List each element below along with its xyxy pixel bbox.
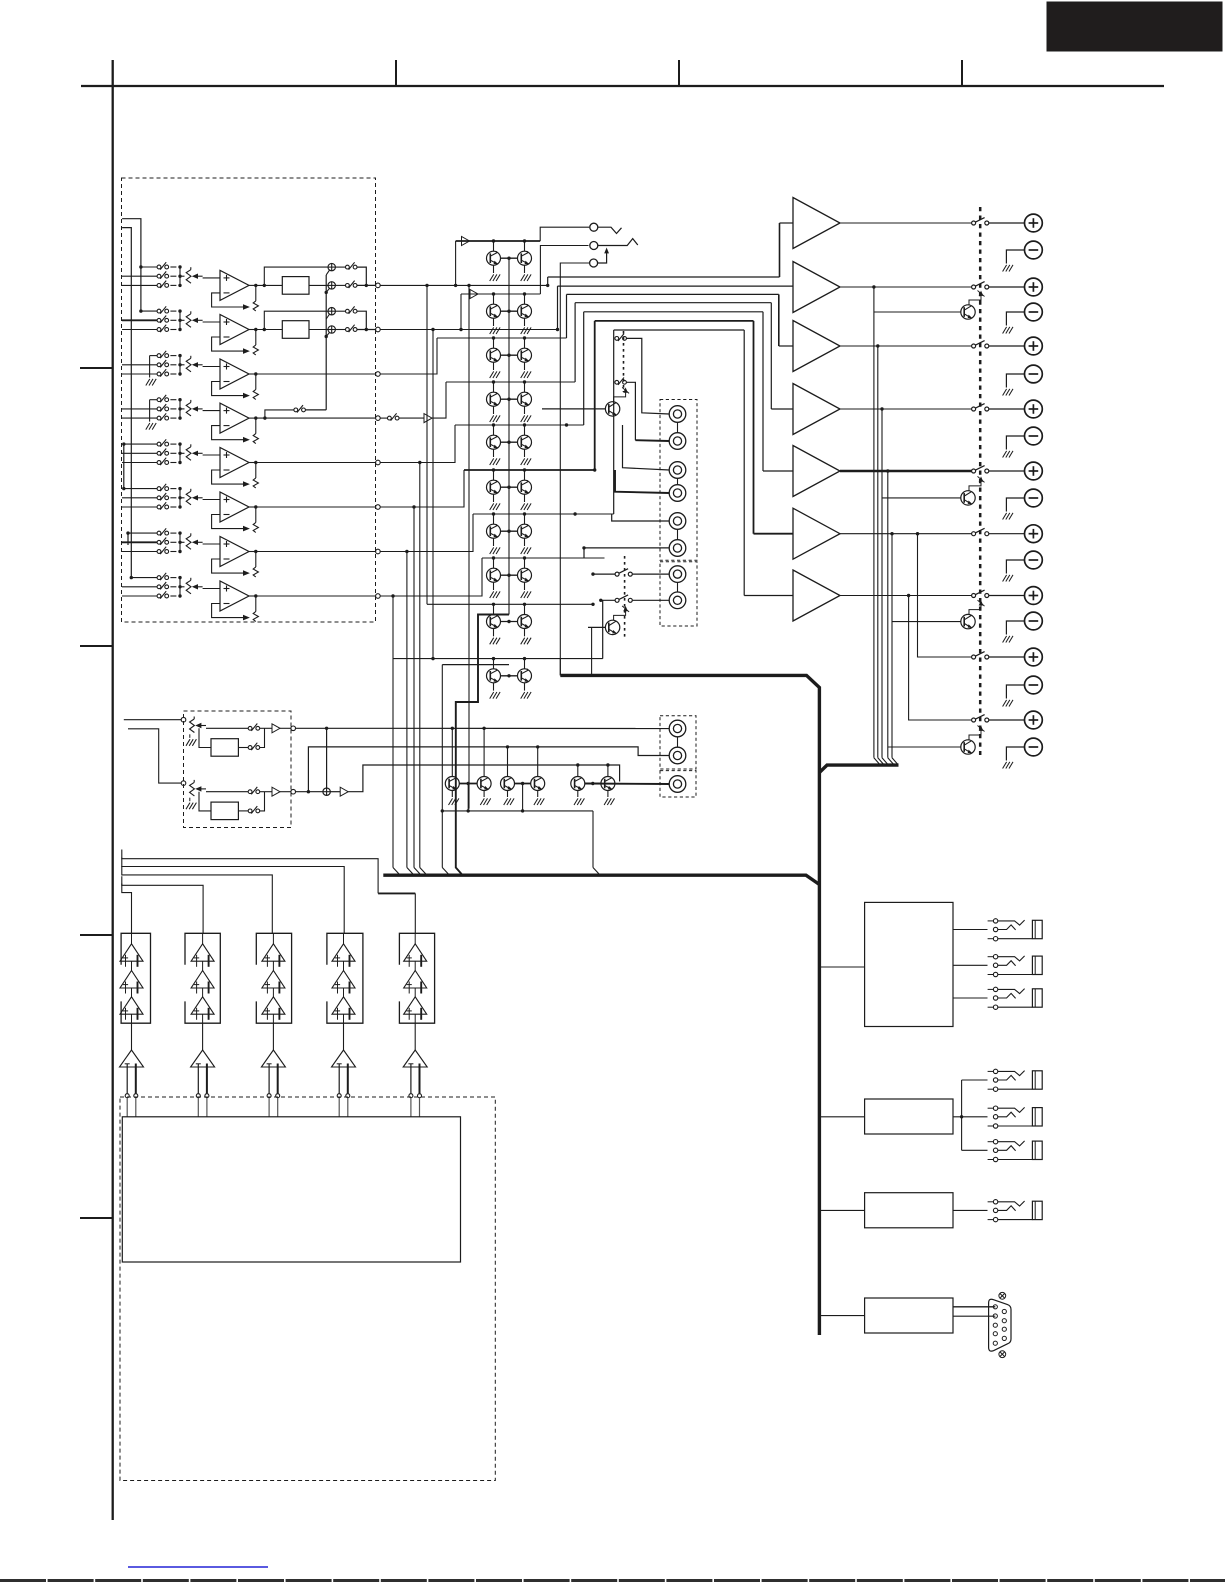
array amp col5 2 <box>404 971 427 989</box>
bundle drop 5 <box>762 312 764 471</box>
border frame top horizontal <box>81 85 1164 87</box>
record buffer ch1 <box>272 724 280 733</box>
zone driver emitter return <box>591 627 593 675</box>
speaker - terminal 3 <box>1025 365 1043 383</box>
box2 output junction <box>953 1116 988 1118</box>
power amp A1 <box>793 198 840 249</box>
record tape line 3 <box>348 765 619 792</box>
sum node lower row 2 <box>328 326 335 333</box>
output node circle row 4 <box>376 416 381 421</box>
speaker switch row 7 <box>972 594 976 598</box>
jack 2 feed <box>626 382 635 440</box>
record ch2 junction <box>307 790 310 793</box>
box4 feed stub <box>819 1315 864 1317</box>
array amp col2 3 <box>191 997 214 1014</box>
zone switch 1 <box>615 572 619 576</box>
speaker - terminal 9 <box>1025 738 1043 756</box>
mute transistor Q8 <box>518 392 532 406</box>
mute transistor pair 6 taps <box>492 468 495 471</box>
terminal ground 2 <box>1003 327 1007 334</box>
box digital 2 <box>865 1099 953 1134</box>
tap amp6 dot <box>890 532 893 535</box>
sum node upper row 1 <box>328 263 335 270</box>
record mute tap 5 <box>576 763 579 766</box>
record mute ground 3 <box>507 791 509 798</box>
amp output wire A3 <box>840 345 972 347</box>
op-amp U8 <box>220 581 249 611</box>
terminal ground wire 1 <box>1006 250 1024 264</box>
wire op-amp out row 1 <box>256 284 282 286</box>
record entry wire ch2 <box>128 729 181 783</box>
rail tap dot row 5 <box>122 442 125 445</box>
headphone ring contact <box>590 242 598 250</box>
array amp col3 3 <box>262 997 285 1014</box>
bundle east run 1 <box>548 276 780 278</box>
record pair link <box>515 783 531 785</box>
RCA jack J8 <box>669 592 686 609</box>
tap vertical x882 <box>881 409 883 758</box>
tap amp3 dot <box>876 344 879 347</box>
wire op-amp out row 5 <box>256 462 376 464</box>
mute transistor Q1 <box>487 251 501 265</box>
mute gnd right 2 <box>524 318 526 326</box>
post-sum switch upper row 2 <box>335 310 345 312</box>
box rs232 4 <box>865 1298 953 1333</box>
mute gnd left 6 <box>493 494 495 502</box>
zone row10 step <box>603 600 615 658</box>
box1 output wire 2 <box>953 964 988 966</box>
tap merge bevel <box>892 758 898 765</box>
op-amp output junction row 6 <box>249 506 256 508</box>
array out pair col 1 <box>126 1064 128 1094</box>
main dsp box <box>122 1117 460 1262</box>
speaker - terminal 4 <box>1025 427 1043 445</box>
row2 ext wire <box>380 329 557 331</box>
wire switch to terminal 9 <box>989 719 1025 721</box>
bus2 drop aux <box>441 665 443 868</box>
zone R vertical <box>432 330 434 659</box>
input select switches row 3 <box>157 354 161 358</box>
bundle junction dots <box>546 284 549 287</box>
output node circle row 2 <box>376 327 381 332</box>
RCA jack JR1 <box>669 720 686 737</box>
wire pot to op-amp row 7 <box>203 543 220 545</box>
record collector ch2 <box>260 792 265 811</box>
sum node diagonal taps row 2 <box>326 314 329 319</box>
input rail B wire <box>127 533 129 545</box>
record mute ground 5 <box>577 791 579 798</box>
RCA jack JR2 <box>669 747 686 764</box>
array column feed col 3 <box>272 933 274 944</box>
rail tap dot row 2 <box>139 309 142 312</box>
bundle vertical 6 <box>594 321 596 470</box>
amp input stub 1 <box>780 222 794 224</box>
wire pot to op-amp row 6 <box>203 499 220 501</box>
wire pot to op-amp row 5 <box>203 454 220 456</box>
amp output wire A7 <box>840 595 972 597</box>
array out wire col 4 <box>343 1023 345 1050</box>
speaker switch row 6 <box>972 532 976 536</box>
record collector ch1 <box>260 728 265 747</box>
terminal ground 8 <box>1003 700 1007 707</box>
mute row wire 4 <box>446 381 575 383</box>
tap merge bevel <box>878 758 884 765</box>
record out thick wire <box>585 783 669 786</box>
row5 out wire <box>380 425 455 463</box>
mute transistor Q6 <box>518 348 532 362</box>
record filter box ch2 <box>211 802 238 820</box>
mute gnd left 10 <box>493 683 495 691</box>
terminal ground wire 7 <box>1006 621 1024 635</box>
mute gnd left 7 <box>493 538 495 546</box>
row3 to mute wire <box>380 338 437 374</box>
feedback loop row 2 <box>212 337 244 351</box>
terminal ground 6 <box>1003 575 1007 582</box>
pre-out jacks dashed box B <box>660 562 697 626</box>
tap merge bevel <box>874 758 880 765</box>
DB9 screw top <box>999 1292 1006 1299</box>
mute pair link 10 <box>501 675 518 677</box>
terminal ground wire 9 <box>1006 747 1024 761</box>
record switch filtered ch2 <box>238 810 248 812</box>
terminal ground wire 5 <box>1006 498 1024 512</box>
speaker + terminal 5 <box>1025 462 1043 480</box>
array amp col2 1 <box>191 944 214 961</box>
box digital 1 <box>865 902 953 1026</box>
box3 output wire <box>953 1209 988 1211</box>
speaker - terminal 7 <box>1025 612 1043 630</box>
DB9 connector body <box>989 1299 1011 1351</box>
amp output wire A5 <box>840 470 972 473</box>
headphone buffer 1 <box>462 237 470 246</box>
power amp A3 <box>793 321 840 372</box>
zone driver transistor Q0 base wire <box>542 408 605 410</box>
speaker switch row 3 <box>972 344 976 348</box>
op-amp U4 <box>220 403 249 433</box>
array box col 5 <box>399 933 434 1023</box>
record filter tap ch2 <box>199 792 211 811</box>
terminal ground wire 3 <box>1006 374 1024 388</box>
record out circle ch2 <box>291 789 296 794</box>
record under right drop <box>592 811 594 868</box>
array amp col3 2 <box>262 971 285 989</box>
speaker switch row 9 <box>972 718 976 722</box>
switch collector bus row 6 <box>179 489 181 507</box>
switch collector bus row 2 <box>179 311 181 329</box>
speaker switch row 5 <box>972 469 976 473</box>
mute transistor pair 10 taps <box>492 657 495 660</box>
wire switch to terminal 5 <box>989 470 1025 472</box>
mute gnd right 10 <box>524 683 526 691</box>
array feed line 5 <box>122 884 132 934</box>
record wire ch2 <box>206 791 248 793</box>
tap amp2 dot <box>872 285 875 288</box>
bundle drop 3 <box>778 294 780 346</box>
optical jack 2-1 <box>993 1069 997 1073</box>
mute row wire 6 <box>464 469 595 471</box>
thick riser record <box>456 615 509 875</box>
riser row1 to w1 <box>455 241 457 285</box>
mute transistor Q17 <box>487 615 501 629</box>
op-amp output junction row 7 <box>249 551 256 553</box>
array amp col1 2 <box>120 971 143 989</box>
op-amp U3 <box>220 359 249 389</box>
mute gnd right 4 <box>524 406 526 414</box>
zone relay dashed line <box>623 331 625 392</box>
headphone buffer 2 <box>470 290 478 299</box>
wire pot to op-amp row 8 <box>203 588 220 590</box>
mute row wire 1 <box>456 240 541 242</box>
record mute transistor QR1 <box>445 777 459 791</box>
bus2 merge bevel <box>593 868 600 875</box>
speaker B vertical 2 <box>909 596 972 721</box>
record mute transistor QR3 <box>501 777 515 791</box>
speaker B vertical 1 <box>918 534 972 657</box>
record filter box ch1 <box>211 739 238 757</box>
optical jack 1-2 <box>993 955 997 959</box>
terminal ground 4 <box>1003 451 1007 458</box>
record ch1 out wire <box>296 727 327 729</box>
headphone sleeve contact <box>590 259 598 267</box>
level pot row 1 <box>186 270 191 284</box>
input select switches row 2 <box>157 309 161 313</box>
input riser ground row 3 <box>149 356 151 378</box>
mute transistor Q4 <box>518 304 532 318</box>
mute transistor Q2 <box>518 251 532 265</box>
wire op-amp out row 7 <box>256 551 376 553</box>
box1 output wire 1 <box>953 929 988 931</box>
tap amp5 dot <box>886 469 889 472</box>
output node circle row 7 <box>376 549 381 554</box>
record out circle ch1 <box>291 726 296 731</box>
row1 ext wire <box>380 284 548 286</box>
array amp col2 2 <box>191 971 214 989</box>
bundle drop 4 <box>770 303 772 409</box>
mute gnd right 6 <box>524 494 526 502</box>
mute row wire 7 <box>473 513 614 515</box>
mute transistor pair 2 taps <box>492 292 495 295</box>
array feed line 4 <box>122 876 203 933</box>
array wires into box col 1 <box>126 1098 128 1117</box>
speaker switch row 4 <box>972 407 976 411</box>
sum node upper row 2 <box>328 308 335 315</box>
power amp A6 <box>793 508 840 559</box>
zone driver transistor Q5 <box>605 620 619 634</box>
zone jack feed 2 <box>633 599 670 601</box>
thick bus 1 horizontal <box>560 675 819 1335</box>
wire op-amp out row 8 <box>256 595 376 597</box>
relay driver base wire 1 <box>874 311 961 313</box>
mute row wire 10 <box>393 658 603 660</box>
thick bus 2 horizontal <box>383 875 819 884</box>
bundle drop 7 <box>743 330 745 596</box>
array wires into box col 3 <box>268 1098 270 1117</box>
switch collector bus row 4 <box>179 400 181 418</box>
jack pair link <box>677 422 679 432</box>
switch collector bus row 8 <box>179 578 181 596</box>
post-sum switch lower row 1 <box>335 284 345 286</box>
array amp col4 2 <box>332 971 355 989</box>
feedback loop row 7 <box>212 559 244 573</box>
riser row2 to w2 <box>460 294 462 330</box>
headphone wire R <box>540 246 588 295</box>
record mute tap 2 <box>482 727 485 730</box>
jack 4 feed <box>615 470 669 493</box>
level pot row 5 <box>186 447 191 461</box>
array out wire col 1 <box>131 1023 133 1050</box>
array amp col3 1 <box>262 944 285 961</box>
mute gnd right 7 <box>524 538 526 546</box>
blue link underline <box>128 1566 268 1568</box>
top tick 3 <box>961 60 963 86</box>
array amp col1 1 <box>120 944 143 961</box>
sum output join row 1 <box>357 267 366 285</box>
record mute ground 6 <box>607 791 609 798</box>
speaker + terminal 4 <box>1025 400 1043 418</box>
bundle east run 2 <box>558 285 794 287</box>
op-amp U2 <box>220 315 249 345</box>
relay driver base wire 3 <box>892 621 961 623</box>
relay driver transistor Q4 <box>961 740 975 754</box>
record pot ch2 <box>190 782 195 796</box>
array out pair col 2 <box>197 1064 199 1094</box>
array out pair col 5 <box>410 1064 412 1094</box>
title block black rectangle <box>1047 2 1222 51</box>
feedback loop row 5 <box>212 470 244 484</box>
mute transistor Q11 <box>487 480 501 494</box>
array big amp col 1 <box>120 1050 144 1067</box>
array amp col4 1 <box>332 944 355 961</box>
record mute transistor QR2 <box>477 777 491 791</box>
array contact circles col 5 <box>409 1094 413 1098</box>
optical jack 3-1 <box>993 1200 997 1204</box>
DB9 pins <box>993 1305 997 1309</box>
mute row wire 3 <box>437 337 567 339</box>
input select switches row 8 <box>157 576 161 580</box>
feedback loop row 3 <box>212 382 244 396</box>
mute row wire 8 <box>482 557 605 559</box>
row4 buffer <box>424 414 432 423</box>
array out wire col 2 <box>202 1023 204 1050</box>
record entry wire ch1 <box>124 719 181 721</box>
optical jack 2-2 <box>993 1106 997 1110</box>
input select switches row 4 <box>157 398 161 402</box>
wire op-amp out row 3 <box>256 373 376 375</box>
op-amp U1 <box>220 270 249 300</box>
filter box row 2 <box>282 321 309 339</box>
record filter tap ch1 <box>199 728 211 747</box>
wire switch to terminal 6 <box>989 533 1025 535</box>
speaker relay dashed line <box>979 207 982 755</box>
input select switches row 1 <box>157 265 161 269</box>
mute pair link 4 <box>501 398 518 400</box>
array big amp col 2 <box>191 1050 215 1067</box>
tap vertical x877.8 <box>877 346 879 758</box>
amp output wire A4 <box>840 408 972 410</box>
bundle vertical 5 <box>583 312 585 425</box>
mute transistor pair 5 taps <box>492 423 495 426</box>
post-sum switch upper row 1 <box>335 266 345 268</box>
record pair link <box>585 783 601 785</box>
feedback loop row 6 <box>212 515 244 529</box>
terminal ground 9 <box>1003 762 1007 769</box>
record switch filtered ch1 <box>238 747 248 749</box>
bundle vertical 4 <box>574 303 576 382</box>
array wires into box col 5 <box>410 1098 412 1117</box>
bundle east run 3 <box>567 293 779 295</box>
array wires into box col 4 <box>338 1098 340 1117</box>
mute transistor Q16 <box>518 568 532 582</box>
rail tap dot row 8 <box>130 576 133 579</box>
bus2 merge bevel <box>407 868 414 875</box>
left tick 1 <box>80 367 112 369</box>
speaker - terminal 5 <box>1025 489 1043 507</box>
record switch direct ch1 <box>248 726 252 730</box>
bundle 8 west stub <box>442 664 509 666</box>
record mute ground 4 <box>537 791 539 798</box>
terminal ground wire 6 <box>1006 560 1024 574</box>
mute pair link 3 <box>501 354 518 356</box>
record entry circle ch2 <box>181 781 186 786</box>
bundle east run 6 <box>595 320 754 322</box>
bus2 drop row6 <box>413 507 415 868</box>
mute transistor Q7 <box>487 392 501 406</box>
mute transistor Q20 <box>518 669 532 683</box>
bus2 merge bevel <box>442 868 449 875</box>
optical jack 1-3 <box>993 987 997 991</box>
row6 out wire <box>380 470 464 507</box>
input riser ground row 4 <box>149 400 151 422</box>
speaker switch row 2 <box>972 285 976 289</box>
mute transistor Q19 <box>487 669 501 683</box>
top tick 1 <box>395 60 397 86</box>
rail tap dot row 1 <box>139 265 142 268</box>
page bottom scan edge <box>0 1579 1225 1582</box>
mute gnd left 8 <box>493 582 495 590</box>
zone jack feed 1 <box>633 573 670 575</box>
terminal ground 1 <box>1003 265 1007 272</box>
record tape line 2 <box>308 747 669 792</box>
power amp A2 <box>793 262 840 313</box>
amp output wire A6 <box>840 533 972 535</box>
left tick 4 <box>80 1217 112 1219</box>
mute transistor pair 3 taps <box>492 336 495 339</box>
switch collector bus row 7 <box>179 533 181 551</box>
mute transistor Q13 <box>487 524 501 538</box>
mute row wire 2 <box>461 293 540 295</box>
w8 corner up to jack6 <box>584 548 669 558</box>
mute gnd left 3 <box>493 362 495 370</box>
bundle east run 5 <box>584 311 763 313</box>
relay driver transistor Q1 <box>961 305 975 319</box>
input select switches row 5 <box>157 442 161 446</box>
RCA jack J6 <box>669 540 686 557</box>
record sum buffer <box>330 791 340 793</box>
array out pair col 3 <box>268 1064 270 1094</box>
power amp A7 <box>793 570 840 621</box>
headphone wire L <box>540 227 589 241</box>
row7 out wire <box>380 514 473 552</box>
mute pair link 2 <box>501 310 518 312</box>
array column feed col 2 <box>202 933 204 944</box>
wire switch to terminal 4 <box>989 408 1025 410</box>
RCA jack JR3 <box>669 776 686 793</box>
mute pair link 9 <box>501 621 518 623</box>
feedback loop row 1 <box>212 293 244 307</box>
jack pair link <box>677 529 679 539</box>
bus2 drop row5 <box>419 463 421 868</box>
amp input stub 3 <box>779 345 793 347</box>
